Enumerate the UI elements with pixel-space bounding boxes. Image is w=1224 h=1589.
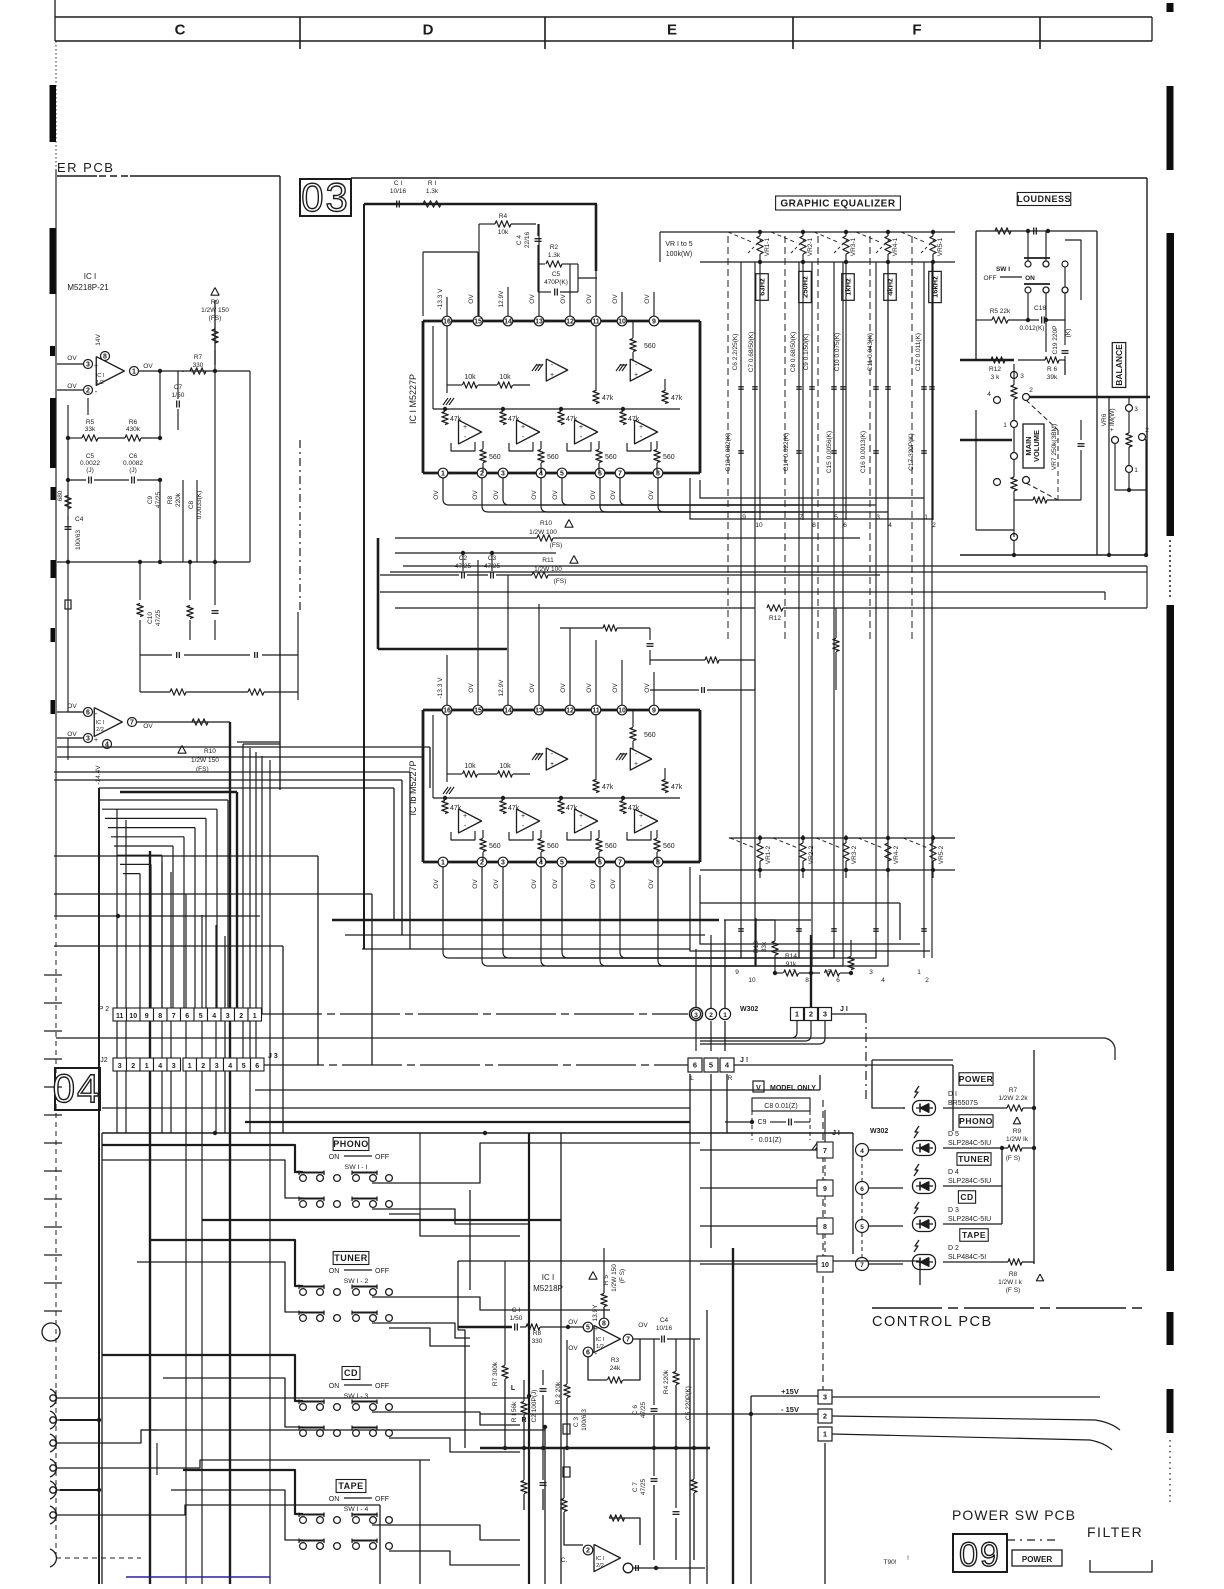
svg-text:0.0082: 0.0082 (123, 460, 143, 467)
svg-text:33k: 33k (761, 941, 768, 952)
svg-text:2: 2 (131, 1063, 135, 1070)
svg-text:V: V (756, 1085, 761, 1092)
svg-text:47/25: 47/25 (640, 1401, 647, 1418)
svg-text:CD: CD (344, 1368, 358, 1378)
svg-text:D 5: D 5 (948, 1131, 959, 1138)
svg-text:OV: OV (638, 1322, 648, 1329)
svg-text:-14.4V: -14.4V (95, 765, 102, 785)
svg-text:W302: W302 (870, 1128, 888, 1135)
svg-text:D I: D I (948, 1091, 957, 1098)
svg-text:6: 6 (843, 522, 847, 529)
svg-text:VR2-2: VR2-2 (808, 845, 815, 864)
svg-text:9: 9 (145, 1013, 149, 1020)
svg-text:4: 4 (212, 1013, 216, 1020)
svg-text:E: E (667, 22, 677, 39)
svg-text:560: 560 (489, 843, 501, 850)
svg-text:560: 560 (489, 454, 501, 461)
svg-text:10k: 10k (498, 229, 509, 236)
svg-text:R4: R4 (499, 213, 508, 220)
svg-text:+: + (634, 761, 638, 768)
svg-text:C6 2.2/25(K): C6 2.2/25(K) (732, 334, 739, 371)
svg-text:SW I - 4: SW I - 4 (344, 1506, 369, 1513)
svg-text:+: + (94, 737, 98, 744)
svg-text:(FS): (FS) (209, 315, 222, 322)
svg-text:C4: C4 (660, 1317, 669, 1324)
svg-text:MODEL ONLY: MODEL ONLY (770, 1085, 816, 1092)
svg-text:2: 2 (86, 388, 90, 395)
svg-text:C5 220P(K): C5 220P(K) (685, 1386, 692, 1420)
svg-text:T90!: T90! (883, 1559, 896, 1566)
svg-text:3: 3 (86, 362, 90, 369)
svg-text:1/2W 150: 1/2W 150 (191, 757, 219, 764)
svg-text:560: 560 (663, 843, 675, 850)
svg-text:OV: OV (143, 723, 153, 730)
svg-text:POWER: POWER (1022, 1555, 1052, 1564)
svg-text:5: 5 (860, 1224, 864, 1231)
svg-text:9: 9 (652, 708, 656, 715)
svg-text:C7 0.68/50(K): C7 0.68/50(K) (748, 332, 755, 372)
svg-text:10k: 10k (499, 374, 511, 381)
svg-text:6: 6 (860, 1186, 864, 1193)
svg-text:9: 9 (735, 969, 739, 976)
svg-text:11: 11 (116, 1013, 124, 1020)
svg-text:8: 8 (103, 354, 107, 361)
svg-text:0.012(K): 0.012(K) (1020, 325, 1045, 332)
svg-text:OV: OV (648, 879, 655, 889)
svg-text:9: 9 (823, 1186, 827, 1193)
svg-text:CD: CD (960, 1192, 973, 1202)
svg-text:1/2W 2.2k: 1/2W 2.2k (998, 1095, 1028, 1102)
svg-text:C2 100P(J): C2 100P(J) (531, 1390, 538, 1423)
svg-text:OFF: OFF (375, 1154, 389, 1161)
svg-text:OV: OV (560, 683, 567, 693)
svg-text:(F S): (F S) (619, 1269, 626, 1283)
svg-text:C16 0.0013(K): C16 0.0013(K) (860, 431, 867, 473)
svg-text:1: 1 (795, 1010, 799, 1019)
svg-text:6: 6 (185, 1013, 189, 1020)
svg-text:+: + (579, 813, 583, 820)
svg-text:10k: 10k (464, 374, 476, 381)
svg-text:4: 4 (860, 1148, 864, 1155)
svg-text:1: 1 (441, 471, 445, 478)
svg-text:OFF: OFF (375, 1496, 389, 1503)
svg-text:5: 5 (560, 860, 564, 867)
svg-text:R 6: R 6 (1047, 366, 1058, 373)
svg-text:J I: J I (840, 1006, 848, 1013)
svg-text:OV: OV (644, 294, 651, 304)
svg-text:SW I - 2: SW I - 2 (344, 1278, 369, 1285)
svg-text:10: 10 (748, 977, 756, 984)
svg-text:C 4: C 4 (516, 235, 523, 246)
svg-text:4kHz: 4kHz (886, 278, 895, 296)
svg-text:TUNER: TUNER (958, 1154, 990, 1164)
svg-text:C8 0.01(Z): C8 0.01(Z) (764, 1103, 797, 1110)
svg-text:OV: OV (610, 879, 617, 889)
svg-text:6: 6 (836, 977, 840, 984)
svg-text:10: 10 (755, 522, 763, 529)
svg-text:C I: C I (394, 180, 403, 187)
svg-text:OV: OV (433, 490, 440, 500)
svg-text:3: 3 (1134, 406, 1138, 413)
svg-text:C12 0.011(K): C12 0.011(K) (915, 333, 922, 371)
svg-text:R I 56k: R I 56k (511, 1401, 518, 1422)
svg-text:OFF: OFF (375, 1268, 389, 1275)
svg-text:C10: C10 (147, 612, 154, 624)
svg-text:1: 1 (823, 1430, 827, 1439)
svg-text:0.0022: 0.0022 (80, 460, 100, 467)
svg-text:1: 1 (924, 514, 928, 521)
svg-text:IC I M5227P: IC I M5227P (408, 374, 418, 424)
svg-text:250Hz: 250Hz (801, 276, 810, 298)
svg-text:IC I: IC I (84, 272, 96, 281)
svg-text:F: F (912, 22, 921, 39)
svg-text:7: 7 (799, 514, 803, 521)
svg-text:-13.3 V: -13.3 V (437, 288, 444, 310)
svg-text:220k: 220k (175, 492, 182, 507)
svg-text:OV: OV (433, 879, 440, 889)
svg-text:R9: R9 (1013, 1128, 1022, 1135)
svg-text:3: 3 (694, 1012, 698, 1019)
svg-text:1: 1 (145, 1063, 149, 1070)
svg-text:11: 11 (592, 319, 600, 326)
svg-text:C5: C5 (86, 453, 95, 460)
svg-text:SLP484C-5I: SLP484C-5I (948, 1254, 986, 1261)
svg-text:+: + (634, 372, 638, 379)
svg-text:C9 0.1/50(K): C9 0.1/50(K) (803, 334, 810, 371)
svg-text:VR4-1: VR4-1 (892, 237, 899, 256)
svg-text:!: ! (907, 1555, 909, 1562)
svg-text:7: 7 (172, 1013, 176, 1020)
svg-text:R7: R7 (1009, 1087, 1018, 1094)
svg-text:R10: R10 (540, 520, 552, 527)
svg-text:1/50: 1/50 (510, 1315, 523, 1322)
svg-text:1/2W 150: 1/2W 150 (201, 307, 229, 314)
svg-text:SLP284C-5IU: SLP284C-5IU (948, 1216, 991, 1223)
svg-text:OV: OV (568, 1319, 578, 1326)
svg-text:12: 12 (566, 319, 574, 326)
svg-text:OV: OV (493, 490, 500, 500)
svg-text:7: 7 (823, 1148, 827, 1155)
svg-text:SLP284C-5IU: SLP284C-5IU (948, 1140, 991, 1147)
svg-text:2: 2 (1029, 387, 1033, 394)
svg-text:ON: ON (329, 1496, 340, 1503)
svg-text:3: 3 (118, 1063, 122, 1070)
svg-text:1/2W I k: 1/2W I k (998, 1279, 1023, 1286)
svg-text:1: 1 (188, 1063, 192, 1070)
svg-text:J I: J I (832, 1130, 840, 1137)
svg-text:1.3k: 1.3k (426, 188, 439, 195)
svg-text:OV: OV (67, 703, 77, 710)
svg-text:OV: OV (468, 683, 475, 693)
svg-text:10/16: 10/16 (656, 1325, 673, 1332)
svg-text:+: + (463, 424, 467, 431)
svg-text:OV: OV (67, 355, 77, 362)
svg-text:2: 2 (1145, 427, 1149, 434)
svg-text:C18: C18 (1034, 305, 1046, 312)
svg-text:SW I - I: SW I - I (345, 1164, 368, 1171)
svg-text:POWER: POWER (959, 1074, 994, 1084)
svg-text:5: 5 (199, 1013, 203, 1020)
svg-text:1: 1 (723, 1012, 727, 1019)
svg-text:R8: R8 (533, 1330, 542, 1337)
svg-text:7: 7 (618, 471, 622, 478)
svg-text:FILTER: FILTER (1087, 1524, 1143, 1540)
svg-text:10: 10 (821, 1262, 829, 1269)
svg-text:7: 7 (618, 860, 622, 867)
svg-text:C4: C4 (75, 516, 84, 523)
svg-text:TUNER: TUNER (334, 1253, 368, 1263)
svg-text:L: L (511, 1385, 516, 1392)
svg-text:VR3-1: VR3-1 (850, 237, 857, 256)
svg-text:560: 560 (605, 843, 617, 850)
svg-text:47k: 47k (628, 416, 640, 423)
svg-text:(F S): (F S) (1006, 1287, 1020, 1294)
svg-text:LOUDNESS: LOUDNESS (1017, 194, 1071, 204)
svg-text:R2: R2 (550, 244, 559, 251)
svg-text:8: 8 (805, 977, 809, 984)
svg-text:OV: OV (493, 879, 500, 889)
svg-text:VR7 250k(3BM): VR7 250k(3BM) (1051, 424, 1058, 470)
svg-text:OV: OV (67, 731, 77, 738)
svg-text:C15 0.0056(K): C15 0.0056(K) (826, 431, 833, 473)
svg-text:12.9V: 12.9V (498, 679, 505, 697)
svg-text:12.9V: 12.9V (498, 290, 505, 308)
svg-text:5: 5 (560, 471, 564, 478)
svg-text:4: 4 (228, 1063, 232, 1070)
svg-text:1/2: 1/2 (596, 1344, 604, 1350)
svg-text:2: 2 (239, 1013, 243, 1020)
svg-text:J 3: J 3 (268, 1053, 278, 1060)
svg-text:+: + (639, 424, 643, 431)
svg-text:VR6: VR6 (1101, 413, 1108, 426)
svg-text:R12: R12 (989, 366, 1001, 373)
svg-text:7: 7 (130, 720, 134, 727)
svg-text:+: + (521, 813, 525, 820)
svg-text:R4 220k: R4 220k (663, 1369, 670, 1394)
svg-text:680: 680 (57, 490, 64, 501)
svg-text:6: 6 (693, 1061, 697, 1070)
svg-text:BR5507S: BR5507S (948, 1100, 978, 1107)
svg-text:OV: OV (644, 683, 651, 693)
svg-text:39k: 39k (1047, 374, 1058, 381)
svg-text:2: 2 (809, 1010, 813, 1019)
svg-text:R7: R7 (194, 354, 203, 361)
svg-text:IC I: IC I (542, 1273, 554, 1282)
svg-text:P 2: P 2 (99, 1006, 109, 1013)
svg-text:47k: 47k (671, 395, 683, 402)
svg-text:ER PCB: ER PCB (57, 160, 114, 175)
svg-text:63Hz: 63Hz (758, 278, 767, 296)
svg-text:560: 560 (644, 343, 656, 350)
svg-text:OFF: OFF (984, 275, 997, 282)
svg-text:OV: OV (586, 294, 593, 304)
svg-text:OV: OV (143, 363, 153, 370)
svg-text:OV: OV (590, 879, 597, 889)
svg-text:R13: R13 (753, 941, 760, 953)
svg-text:C19 220P: C19 220P (1052, 326, 1059, 355)
svg-text:4: 4 (881, 977, 885, 984)
svg-text:OV: OV (612, 294, 619, 304)
svg-text:IC I: IC I (596, 1337, 605, 1343)
svg-text:47k: 47k (508, 805, 520, 812)
svg-text:VOLUME: VOLUME (1032, 430, 1041, 462)
svg-text:OV: OV (531, 879, 538, 889)
svg-text:R10: R10 (204, 748, 216, 755)
svg-text:47k: 47k (508, 416, 520, 423)
svg-text:4: 4 (888, 522, 892, 529)
svg-text:PHONO: PHONO (333, 1139, 369, 1149)
svg-text:430k: 430k (126, 426, 141, 433)
svg-text:OV: OV (472, 879, 479, 889)
svg-text:6: 6 (586, 1350, 590, 1357)
svg-text:14V: 14V (95, 334, 102, 346)
svg-text:6: 6 (255, 1063, 259, 1070)
svg-text:15: 15 (474, 708, 482, 715)
svg-text:CONTROL PCB: CONTROL PCB (872, 1314, 993, 1330)
svg-text:R11: R11 (542, 557, 554, 564)
svg-text:10/16: 10/16 (390, 188, 407, 195)
svg-text:OV: OV (468, 294, 475, 304)
svg-text:C14 0.022(K): C14 0.022(K) (783, 433, 790, 472)
svg-text:2: 2 (709, 1012, 713, 1019)
svg-text:C9: C9 (147, 495, 154, 504)
svg-text:R5: R5 (86, 419, 95, 426)
svg-text:1: 1 (441, 860, 445, 867)
svg-text:7: 7 (626, 1337, 630, 1344)
svg-text:91k: 91k (786, 961, 797, 968)
svg-text:09: 09 (959, 1536, 1001, 1574)
svg-text:47/25: 47/25 (155, 491, 162, 508)
svg-text:+: + (94, 363, 98, 370)
svg-text:3: 3 (1020, 373, 1024, 380)
svg-text:(K): (K) (1065, 329, 1072, 338)
svg-text:OV: OV (472, 490, 479, 500)
svg-text:+: + (639, 813, 643, 820)
svg-text:2/2: 2/2 (596, 1563, 604, 1569)
svg-text:3: 3 (876, 514, 880, 521)
svg-text:24k: 24k (610, 1365, 621, 1372)
svg-text:IC Ib M5227P: IC Ib M5227P (408, 760, 418, 815)
svg-text:47k: 47k (602, 395, 614, 402)
svg-text:3: 3 (172, 1063, 176, 1070)
svg-text:1/2W Ik: 1/2W Ik (1006, 1136, 1029, 1143)
svg-text:04: 04 (53, 1067, 102, 1111)
svg-text:47k: 47k (602, 784, 614, 791)
svg-text:J !: J ! (740, 1057, 748, 1064)
svg-text:ON: ON (329, 1268, 340, 1275)
svg-text:IC I: IC I (96, 373, 105, 379)
svg-text:OV: OV (568, 1345, 578, 1352)
svg-text:12: 12 (566, 708, 574, 715)
svg-text:OV: OV (529, 294, 536, 304)
svg-text:+: + (521, 424, 525, 431)
svg-text:J2: J2 (100, 1057, 108, 1064)
svg-text:R8: R8 (1009, 1271, 1018, 1278)
svg-text:3: 3 (215, 1063, 219, 1070)
svg-text:8: 8 (812, 522, 816, 529)
svg-text:C 7: C 7 (632, 1482, 639, 1493)
svg-text:4: 4 (987, 391, 991, 398)
svg-text:OV: OV (67, 383, 77, 390)
svg-text:+ IM(W): + IM(W) (1109, 408, 1116, 431)
svg-text:C9: C9 (758, 1119, 767, 1126)
svg-text:1: 1 (917, 969, 921, 976)
svg-text:OV: OV (552, 879, 559, 889)
svg-text:2: 2 (925, 977, 929, 984)
svg-text:560: 560 (547, 454, 559, 461)
svg-text:1.3k: 1.3k (548, 252, 561, 259)
svg-text:9: 9 (742, 514, 746, 521)
svg-text:10k: 10k (499, 763, 511, 770)
svg-text:VR1-2: VR1-2 (765, 845, 772, 864)
svg-text:330: 330 (532, 1338, 543, 1345)
svg-text:IC I: IC I (96, 720, 105, 726)
svg-text:13: 13 (535, 319, 543, 326)
svg-text:VR5-1: VR5-1 (937, 237, 944, 256)
svg-text:10: 10 (129, 1013, 137, 1020)
svg-text:100/63: 100/63 (75, 530, 82, 550)
svg-text:16: 16 (443, 708, 451, 715)
svg-text:1/2W 150: 1/2W 150 (611, 1264, 618, 1292)
svg-text:13.9Y: 13.9Y (592, 1304, 599, 1322)
svg-text:IC I: IC I (596, 1556, 605, 1562)
svg-text:(F S): (F S) (1006, 1155, 1020, 1162)
svg-text:VR3-2: VR3-2 (851, 845, 858, 864)
svg-text:TAPE: TAPE (338, 1481, 363, 1491)
svg-text:10k: 10k (464, 763, 476, 770)
svg-text:+: + (463, 813, 467, 820)
svg-text:10: 10 (618, 319, 626, 326)
svg-text:D 3: D 3 (948, 1207, 959, 1214)
svg-text:3: 3 (226, 1013, 230, 1020)
svg-text:- 15V: - 15V (781, 1405, 799, 1414)
svg-text:C5: C5 (552, 271, 561, 278)
svg-text:VR1-1: VR1-1 (764, 237, 771, 256)
svg-text:10: 10 (618, 708, 626, 715)
svg-text:-: - (95, 709, 98, 718)
svg-text:-: - (595, 1349, 598, 1358)
svg-text:SW I: SW I (996, 266, 1010, 273)
svg-text:SW I - 3: SW I - 3 (344, 1393, 369, 1400)
svg-text:ON: ON (329, 1154, 340, 1161)
svg-text:560: 560 (644, 732, 656, 739)
svg-text:3: 3 (823, 1393, 827, 1402)
svg-text:VR5-2: VR5-2 (938, 845, 945, 864)
svg-text:100k(W): 100k(W) (666, 251, 692, 258)
svg-text:9: 9 (652, 319, 656, 326)
svg-text:(J): (J) (129, 467, 137, 474)
svg-text:(FS): (FS) (554, 578, 567, 585)
svg-text:C.: C. (561, 1557, 568, 1564)
svg-text:7: 7 (860, 1262, 864, 1269)
svg-text:-13.3 V: -13.3 V (437, 677, 444, 699)
svg-text:1: 1 (1003, 422, 1007, 429)
svg-text:W302: W302 (740, 1006, 758, 1013)
svg-text:2: 2 (586, 1548, 590, 1555)
svg-text:3 k: 3 k (991, 374, 1000, 381)
svg-text:ON: ON (329, 1383, 340, 1390)
svg-text:14: 14 (504, 319, 512, 326)
svg-text:14: 14 (504, 708, 512, 715)
svg-text:5: 5 (242, 1063, 246, 1070)
svg-text:GRAPHIC EQUALIZER: GRAPHIC EQUALIZER (780, 199, 895, 210)
svg-text:47k: 47k (450, 416, 462, 423)
svg-text:6: 6 (86, 710, 90, 717)
svg-text:560: 560 (605, 454, 617, 461)
svg-text:1: 1 (132, 369, 136, 376)
svg-text:47k: 47k (628, 805, 640, 812)
svg-text:5: 5 (709, 1061, 713, 1070)
